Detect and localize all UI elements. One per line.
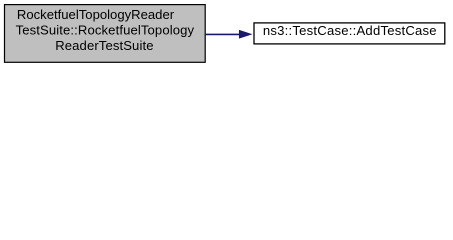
svg-text:ns3::TestCase::AddTestCase: ns3::TestCase::AddTestCase bbox=[263, 23, 437, 38]
svg-text:TestSuite::RocketfuelTopology: TestSuite::RocketfuelTopology bbox=[16, 23, 195, 38]
svg-text:RocketfuelTopologyReader: RocketfuelTopologyReader bbox=[17, 7, 175, 22]
svg-text:ReaderTestSuite: ReaderTestSuite bbox=[55, 38, 153, 53]
wire: edge from left node to arrowhead bbox=[206, 33, 241, 35]
node ns3::TestCase::AddTestCase (white box) bbox=[254, 23, 445, 44]
node RocketfuelTopologyReaderTestSuite (grey box) bbox=[5, 5, 206, 63]
arrowhead bbox=[239, 30, 251, 38]
